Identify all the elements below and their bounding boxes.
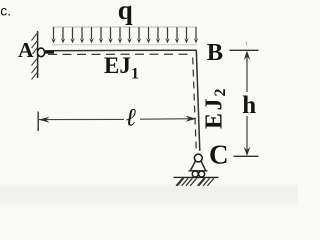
svg-text:c.: c. xyxy=(0,3,11,19)
dimension l : left tick xyxy=(37,112,39,132)
dimension h : down arrowhead xyxy=(244,147,251,156)
dimension h : upper shaft xyxy=(246,52,248,92)
wall hatching at A xyxy=(32,32,39,80)
support C roller left xyxy=(192,171,198,177)
dimension l : line right segment xyxy=(140,118,196,121)
svg-text:EJ: EJ xyxy=(104,53,131,78)
ground line at C xyxy=(174,176,219,178)
dimension h : up arrowhead xyxy=(244,51,251,60)
svg-text:h: h xyxy=(242,92,256,119)
dimension l : left arrowhead xyxy=(39,117,50,123)
dimension l : line left segment xyxy=(39,118,124,120)
beam AB top contour line xyxy=(44,49,196,52)
svg-text:C: C xyxy=(209,140,229,170)
support C base line xyxy=(189,170,208,172)
member label EJ2 (rotated) xyxy=(201,89,229,130)
svg-text:A: A xyxy=(18,38,34,62)
svg-text:q: q xyxy=(118,0,133,25)
distributed load q: top boundary line xyxy=(52,26,197,28)
dimension h : lower shaft xyxy=(246,116,248,155)
pin circle at A xyxy=(37,48,44,57)
column BC dashed axis xyxy=(193,58,197,150)
pin circle at C xyxy=(194,154,202,162)
column BC solid contour line xyxy=(196,50,200,151)
dimension h : small mark above tick xyxy=(245,42,248,46)
support C roller right xyxy=(199,171,205,177)
support C triangle left leg xyxy=(190,161,195,171)
svg-text:2: 2 xyxy=(212,89,229,97)
dimension h : bottom tick xyxy=(234,155,259,157)
distributed load q: arrows xyxy=(51,27,198,43)
dimension l : right arrowhead xyxy=(186,116,197,122)
svg-text:EJ: EJ xyxy=(201,96,227,129)
support C triangle right leg xyxy=(201,161,206,171)
distributed load q: bottom boundary line xyxy=(52,44,197,46)
ground hatching at C xyxy=(176,178,214,186)
svg-text:ℓ: ℓ xyxy=(126,105,137,132)
wall at A xyxy=(37,31,39,78)
svg-text:1: 1 xyxy=(131,66,139,83)
dimension h : top tick xyxy=(230,49,259,51)
svg-text:B: B xyxy=(207,39,223,66)
beam AB stub at pin xyxy=(45,51,55,54)
beam AB dashed axis xyxy=(48,53,193,55)
